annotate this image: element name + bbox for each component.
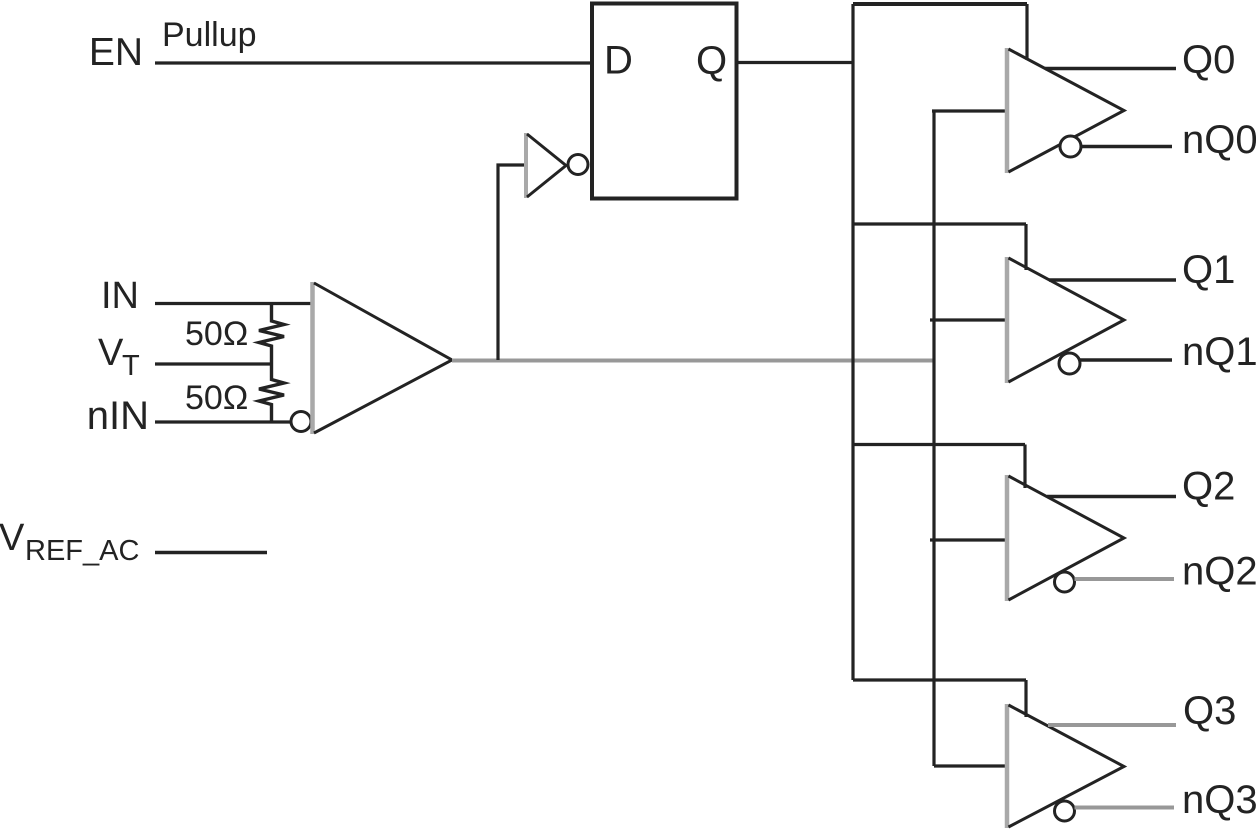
buffer Q3 bubble xyxy=(1055,801,1075,821)
bus top horizontal (Q0 section) xyxy=(853,2,1027,6)
buffer Q3 triangle xyxy=(1009,705,1125,827)
inverter U2 triangle xyxy=(527,134,566,197)
D flip-flop U3 box xyxy=(592,4,737,199)
section Q1 horizontal xyxy=(853,222,1026,225)
svg-text:Q1: Q1 xyxy=(1182,248,1235,292)
buffer Q0 input edge (gray) xyxy=(1005,48,1010,173)
svg-text:Pullup: Pullup xyxy=(162,16,257,54)
wire VREF_AC xyxy=(155,551,267,554)
svg-text:nQ3: nQ3 xyxy=(1182,778,1256,822)
wire EN to D input xyxy=(155,61,592,64)
input stub buffer 2 xyxy=(930,538,1008,541)
wire Q1 out xyxy=(1049,278,1176,281)
bus inner vertical (clock) xyxy=(932,111,935,766)
svg-text:REF_AC: REF_AC xyxy=(25,535,139,567)
svg-text:50Ω: 50Ω xyxy=(185,379,248,417)
buffer Q1 bubble xyxy=(1059,353,1080,374)
inverter U2 input edge (gray) xyxy=(524,133,528,198)
buffer Q3 input edge (gray) xyxy=(1005,704,1010,828)
buffer Q0 bubble xyxy=(1060,136,1081,157)
svg-text:Q0: Q0 xyxy=(1182,38,1235,82)
enable stub Q3 xyxy=(1024,680,1027,717)
section Q2 horizontal xyxy=(853,443,1025,446)
svg-text:T: T xyxy=(122,350,140,382)
enable stub Q2 xyxy=(1023,445,1026,489)
input stub buffer 0 xyxy=(932,109,1008,112)
svg-text:nQ0: nQ0 xyxy=(1182,118,1256,162)
buffer Q2 triangle xyxy=(1009,476,1125,600)
wire Q2 out xyxy=(1047,495,1176,498)
svg-text:50Ω: 50Ω xyxy=(185,315,248,353)
buffer Q2 input edge (gray) xyxy=(1005,475,1010,601)
bus outer vertical xyxy=(851,4,854,680)
wire IN xyxy=(155,302,314,305)
resistor R1 50ohm xyxy=(259,303,284,364)
buffer Q1 input edge (gray) xyxy=(1005,257,1010,383)
buffer Q2 bubble xyxy=(1055,572,1075,592)
section Q3 horizontal xyxy=(853,678,1026,681)
wire Q output to bus xyxy=(736,61,853,64)
wire receiver output to inner bus (gray) xyxy=(452,359,934,363)
svg-text:EN: EN xyxy=(89,31,143,74)
wire nQ2 out (gray) xyxy=(1075,577,1175,581)
wire nQ3 out (gray) xyxy=(1075,806,1175,810)
svg-text:nQ2: nQ2 xyxy=(1182,550,1256,594)
svg-text:D: D xyxy=(604,39,633,83)
wire nIN xyxy=(155,420,291,423)
receiver U1 triangle xyxy=(314,283,452,433)
svg-text:V: V xyxy=(0,517,25,559)
svg-text:V: V xyxy=(98,332,124,374)
bubble on nIN input xyxy=(291,412,311,432)
buffer Q0 triangle xyxy=(1009,49,1125,172)
svg-text:Q: Q xyxy=(696,39,727,83)
wire nQ0 out xyxy=(1081,145,1172,148)
buffer Q1 triangle xyxy=(1009,258,1125,382)
enable stub Q0 xyxy=(1025,4,1028,60)
svg-text:Q3: Q3 xyxy=(1183,689,1236,733)
resistor R2 50ohm xyxy=(259,364,284,422)
svg-text:IN: IN xyxy=(101,275,139,317)
input stub buffer 1 xyxy=(930,318,1008,321)
wire node to inverter xyxy=(498,165,527,360)
svg-text:nIN: nIN xyxy=(87,394,149,438)
input stub buffer 3 xyxy=(934,764,1008,767)
svg-text:Q2: Q2 xyxy=(1182,465,1235,509)
wire Q3 out (gray) xyxy=(1048,723,1176,727)
inverter U2 bubble xyxy=(568,155,588,175)
wire nQ1 out xyxy=(1080,358,1172,361)
wire VT xyxy=(155,362,273,365)
receiver U1 input edge (gray) xyxy=(310,282,315,434)
wire Q0 out xyxy=(1045,67,1176,70)
svg-text:nQ1: nQ1 xyxy=(1182,330,1256,374)
enable stub Q1 xyxy=(1024,224,1027,270)
